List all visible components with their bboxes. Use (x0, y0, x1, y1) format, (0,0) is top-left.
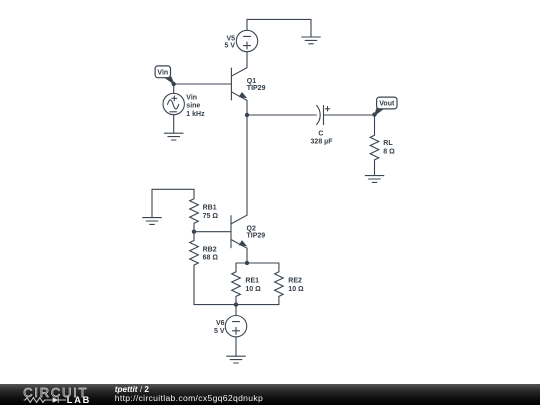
voltage source V5 (224, 30, 257, 51)
transistor Q1 (NPN) (231, 68, 247, 101)
wire bottom rail RB2/RE1/RE2 (194, 304, 279, 306)
node: bottom rail / V6 junction (234, 302, 238, 306)
wire RL to ground (374, 160, 376, 176)
resistor RE1 (232, 272, 241, 305)
svg-text:TIP29: TIP29 (247, 85, 266, 92)
label Vin sine 1 kHz (186, 94, 205, 118)
resistor RB2 (190, 232, 199, 305)
wire V5 top to ground (top right) (247, 19, 311, 37)
label RE1 10 ohm (245, 278, 261, 293)
voltage source Vin (sine) (163, 93, 184, 114)
svg-text:RE2: RE2 (288, 278, 302, 285)
ground (left, bias network) (143, 218, 162, 225)
label C 328 uF (311, 130, 334, 145)
wire capacitor to Vout node (324, 114, 375, 116)
node: Vin junction (172, 82, 176, 86)
net flag Vin (155, 66, 174, 84)
net flag Vout (375, 97, 397, 115)
svg-text:Vout: Vout (379, 101, 395, 108)
label RL 8 ohm (383, 140, 395, 155)
svg-text:Q2: Q2 (247, 226, 256, 233)
CircuitLab logo (23, 385, 91, 405)
svg-text:10 Ω: 10 Ω (245, 286, 261, 293)
resistor RB1 (190, 189, 199, 231)
svg-text:1 kHz: 1 kHz (186, 111, 205, 118)
svg-text:C: C (318, 130, 323, 137)
svg-text:RL: RL (383, 140, 393, 147)
resistor RL (370, 135, 379, 160)
wire Vin source to ground (173, 115, 175, 133)
wire emitter rail to RE1 and RE2 tops (236, 263, 279, 272)
wire Vout node to RL (374, 115, 376, 136)
footer text: author / id (115, 385, 263, 403)
svg-text:328 µF: 328 µF (311, 139, 334, 146)
ground (below Vin source) (164, 133, 183, 140)
node: Q2 emitter / RE1 / RE2 junction (245, 261, 249, 265)
wire V6 to ground (235, 337, 237, 356)
svg-text:LAB: LAB (67, 395, 91, 405)
svg-text:Vin: Vin (186, 94, 197, 101)
svg-text:75 Ω: 75 Ω (203, 213, 219, 220)
ground (below V6) (227, 356, 246, 363)
label RB1 75 ohm (203, 205, 219, 220)
wire output node down to Q2 collector (246, 115, 248, 215)
svg-text:RB2: RB2 (203, 246, 217, 253)
svg-text:RE1: RE1 (245, 278, 259, 285)
voltage source V6 (214, 316, 247, 337)
svg-text:http://circuitlab.com/cx5gq62q: http://circuitlab.com/cx5gq62qdnukp (115, 393, 263, 403)
svg-text:RB1: RB1 (203, 205, 217, 212)
svg-text:8 Ω: 8 Ω (383, 149, 395, 156)
svg-text:10 Ω: 10 Ω (288, 286, 304, 293)
wire V5 bottom to Q1 collector (246, 52, 248, 68)
svg-text:68 Ω: 68 Ω (203, 255, 219, 262)
label Q2 TIP29 (247, 226, 266, 240)
svg-text:Vin: Vin (157, 69, 168, 76)
footer bar (0, 384, 540, 405)
svg-text:5 V: 5 V (224, 42, 235, 49)
node: Vout junction (372, 112, 376, 116)
node: Q1 emitter / C / Q2 collector junction (245, 113, 249, 117)
capacitor C (polarized) (317, 105, 330, 124)
ground (below RL) (365, 176, 384, 183)
wire Q2 emitter to RE junction (246, 248, 248, 263)
wire Q1 emitter down to output node (246, 100, 248, 115)
svg-text:sine: sine (186, 103, 200, 110)
node: RB1/RB2/Q2 base junction (192, 230, 196, 234)
svg-text:Q1: Q1 (247, 78, 256, 85)
wire Vin node to Q1 base (174, 83, 232, 85)
label RE2 10 ohm (288, 278, 304, 293)
wire node to capacitor C (247, 114, 316, 116)
svg-text:5 V: 5 V (214, 328, 225, 335)
label Q1 TIP29 (247, 78, 266, 92)
wire node to Q2 base (194, 231, 231, 233)
wire Vin node to Vin source (173, 84, 175, 93)
resistor RE2 (275, 272, 284, 305)
svg-text:TIP29: TIP29 (247, 233, 266, 240)
svg-text:V6: V6 (216, 320, 225, 327)
wire ground to RB1 top (152, 189, 194, 217)
wire node to V6 (235, 305, 237, 316)
ground (top right) (302, 37, 321, 44)
label RB2 68 ohm (203, 246, 219, 261)
transistor Q2 (NPN) (231, 215, 247, 248)
